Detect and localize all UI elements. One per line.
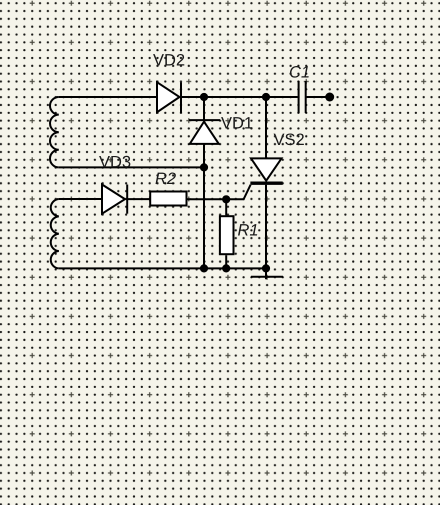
diode VD2 [157,82,180,112]
resistor R1 [225,199,227,215]
wire: VD2 cathode to node A [181,96,204,98]
label C1 [290,66,309,78]
label VD1 [221,117,252,128]
node B junction dot [262,93,270,101]
wire: node C down to bottom rail [203,167,205,268]
wire: upper coil bottom to node C [59,166,204,168]
terminal dot [325,93,334,102]
cathode bar VD3 [126,185,128,214]
label R2 [156,172,176,184]
wire: C1 right plate to terminal [307,96,330,98]
label VS2 [274,133,304,145]
inductor winding L2 (lower coil) [51,199,59,268]
cathode bar VD2 [180,82,182,113]
label VD3 [99,156,130,168]
inductor winding L1 (upper coil) [50,97,59,167]
resistor R2 [150,192,186,206]
thyristor VS2 [265,97,267,158]
node D junction dot (gate/R1/R2) [222,195,230,203]
bottom rail junction dot 3 [262,264,270,272]
wire: R2 to node D and gate of VS2 [188,185,251,200]
bottom rail junction dot 1 [200,264,208,272]
wire: node A to node B [204,96,266,98]
node C junction dot [200,163,208,171]
diode VD3 [102,185,125,214]
wire: VD3 to R2 [127,198,150,200]
label VD2 [153,54,184,66]
capacitor C1 [299,81,306,113]
bottom rail wire [59,267,266,269]
wire: lower coil top to VD3 anode [59,198,102,200]
label R1 [238,224,257,235]
wire: node B to C1 left plate [266,96,298,98]
ground [251,268,283,279]
bottom rail junction dot 2 [222,264,230,272]
diode VD1 [203,97,205,120]
wire top: coil to VD2 anode [59,96,157,98]
node A junction dot [200,93,208,101]
